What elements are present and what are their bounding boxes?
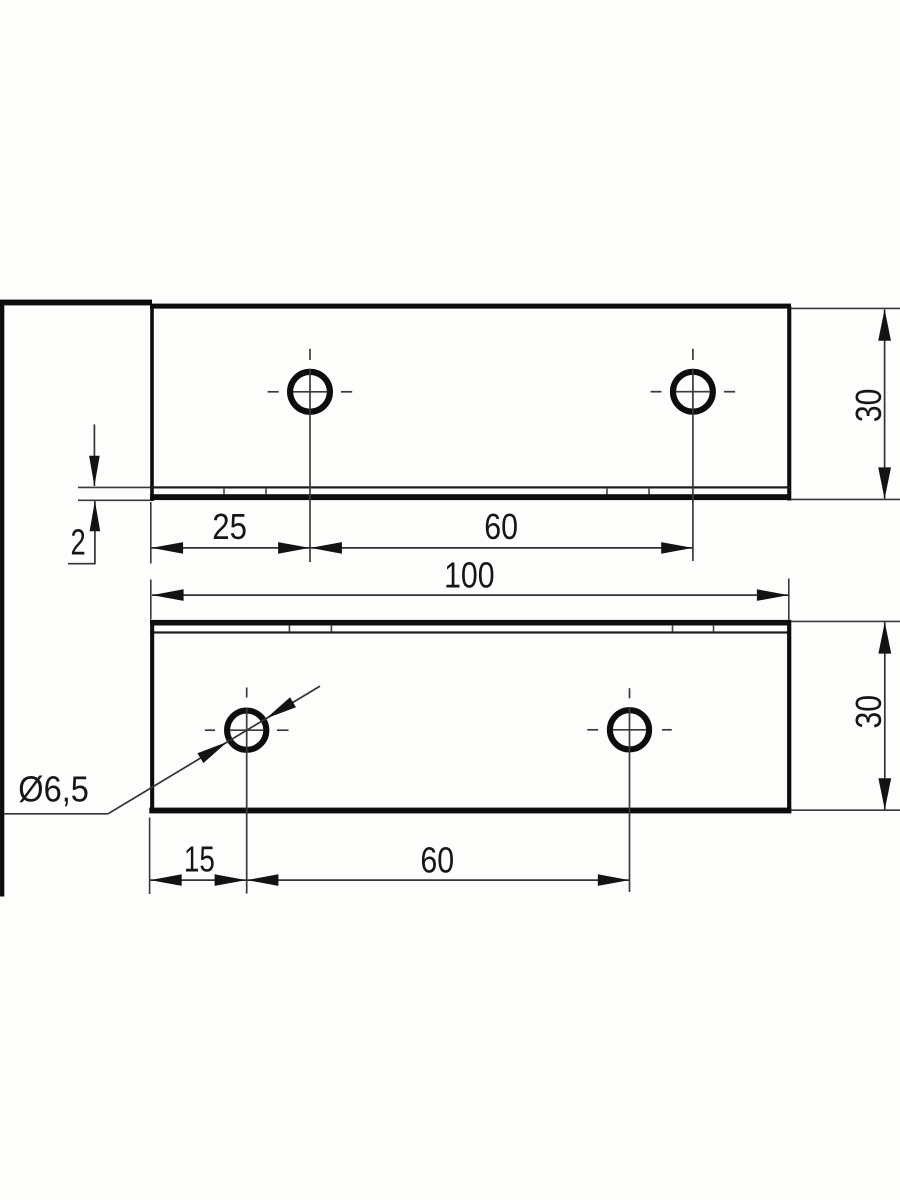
bv edge tick 2 — [330, 626, 332, 632]
dim 15: arrow right — [215, 874, 247, 886]
extension line left column lower — [150, 580, 152, 620]
dim 100: dimension line — [152, 594, 789, 596]
dim 30 top: arrow up — [878, 309, 891, 341]
svg-text:2: 2 — [71, 522, 86, 563]
hole C centerline horizontal dash left — [205, 729, 215, 731]
hole diameter leader horizontal — [4, 813, 108, 815]
edge tick 3 — [606, 488, 608, 495]
dim 30 bottom: arrow down — [878, 778, 891, 810]
svg-text:30: 30 — [848, 695, 889, 729]
plate top-view top edge — [150, 304, 791, 309]
hole C centerline vertical dash — [246, 688, 248, 698]
dim 100: arrow left — [152, 589, 184, 601]
hole B — [673, 372, 713, 412]
hole B centerline vertical dash — [692, 349, 694, 360]
hole A — [290, 372, 330, 412]
bv edge tick 4 — [713, 626, 715, 632]
dim 60: arrow right — [661, 542, 693, 554]
dim 2: label shelf — [68, 563, 96, 565]
hole C centerline horizontal — [230, 729, 264, 731]
svg-text:30: 30 — [848, 389, 889, 423]
hole C centerline horizontal dash right — [277, 729, 289, 731]
svg-text:15: 15 — [184, 838, 215, 879]
edge tick 4 — [648, 488, 650, 495]
hole C — [227, 711, 266, 750]
svg-text:Ø6,5: Ø6,5 — [18, 769, 89, 810]
hole A centerline vertical dash — [309, 349, 311, 360]
dim 15: arrow left — [150, 874, 182, 886]
dim 30 bottom: dimension line — [884, 622, 886, 809]
dim 2: arrow down — [89, 456, 100, 487]
hole D centerline vertical — [629, 707, 631, 892]
bv edge tick 3 — [672, 626, 674, 632]
svg-text:100: 100 — [444, 555, 495, 596]
hole D — [610, 710, 649, 749]
svg-text:25: 25 — [212, 506, 247, 547]
dim 25: arrow right — [278, 542, 310, 554]
extension line left column upper — [150, 502, 152, 564]
hole A centerline horizontal dash left — [268, 391, 279, 393]
plate bottom-view bottom edge — [149, 808, 791, 814]
hole D centerline horizontal dash left — [587, 729, 598, 731]
plate top-view right edge — [787, 306, 791, 501]
plate top-view bottom inner line — [150, 486, 790, 488]
dim 30 top: dimension line — [884, 310, 886, 499]
dim 30 top: extension line bottom — [791, 498, 900, 500]
svg-text:60: 60 — [484, 506, 518, 547]
plate top-view left edge — [150, 306, 154, 501]
hole B centerline vertical — [692, 369, 694, 561]
plate top-view bottom thick edge — [150, 494, 791, 500]
dim 30 bottom: arrow up — [878, 622, 891, 654]
dim 30 top: arrow down — [878, 467, 891, 499]
leader arrow upper-right — [266, 697, 296, 718]
hole D centerline horizontal — [613, 729, 647, 731]
plate bottom-view left edge — [150, 620, 154, 813]
hole A centerline vertical — [309, 369, 311, 562]
dim 2: arrow up — [90, 501, 101, 532]
frame border top — [0, 300, 152, 306]
dim 100: arrow right — [757, 589, 789, 601]
dim 2: extension line lower — [78, 499, 150, 501]
extension line right column — [788, 579, 790, 621]
extension line bottom left — [149, 818, 151, 895]
dim 25: arrow left — [152, 542, 184, 554]
dim 60 bottom: arrow right — [598, 874, 630, 886]
svg-text:60: 60 — [420, 840, 454, 881]
edge tick 1 — [223, 488, 225, 495]
dim 2: lower leader line — [94, 501, 96, 564]
dim 2: upper leader line — [93, 424, 95, 486]
dim 30 top: extension line top — [791, 307, 900, 309]
dim 30 bottom: extension line top — [791, 620, 900, 622]
dim 2: extension line upper — [78, 486, 150, 488]
frame border left — [0, 303, 4, 897]
hole B centerline horizontal — [676, 391, 710, 393]
dim 25/60: dimension line — [151, 547, 693, 549]
hole B centerline horizontal dash right — [724, 391, 735, 393]
dim 60: arrow left — [310, 542, 342, 554]
hole C centerline vertical — [246, 708, 248, 894]
dim 30 bottom: extension line bottom — [791, 809, 900, 811]
edge tick 2 — [265, 488, 267, 495]
plate bottom-view right edge — [787, 620, 791, 813]
dim 15/60: dimension line — [150, 879, 630, 881]
hole B centerline horizontal dash left — [651, 391, 662, 393]
plate bottom-view top inner line — [150, 631, 790, 633]
leader arrow lower-left — [197, 742, 227, 763]
hole A centerline horizontal dash right — [341, 391, 352, 393]
plate bottom-view top thick edge — [150, 620, 791, 626]
dim 60 bottom: arrow left — [247, 874, 279, 886]
hole D centerline vertical dash — [629, 688, 631, 698]
bv edge tick 1 — [288, 626, 290, 632]
hole D centerline horizontal dash right — [662, 729, 672, 731]
hole A centerline horizontal — [293, 391, 327, 393]
hole diameter leader diagonal — [108, 686, 320, 814]
